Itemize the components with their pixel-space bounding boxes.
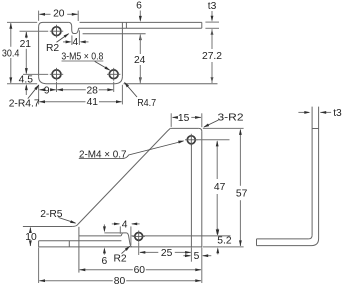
svg-text:5.2: 5.2: [217, 236, 232, 247]
svg-text:4: 4: [73, 37, 79, 48]
svg-text:60: 60: [134, 265, 146, 276]
svg-text:6: 6: [102, 256, 108, 267]
svg-text:t3: t3: [208, 1, 217, 12]
svg-text:20: 20: [53, 9, 65, 20]
svg-text:25: 25: [161, 248, 173, 259]
svg-text:4: 4: [122, 219, 128, 230]
svg-text:t3: t3: [333, 108, 342, 119]
svg-text:57: 57: [236, 189, 248, 200]
svg-text:10: 10: [25, 232, 37, 243]
svg-text:15: 15: [178, 113, 190, 124]
svg-text:R2: R2: [46, 43, 59, 54]
svg-text:R4.7: R4.7: [137, 98, 156, 109]
svg-text:24: 24: [134, 55, 146, 66]
svg-text:3-R2: 3-R2: [218, 112, 244, 123]
svg-text:4.5: 4.5: [19, 75, 34, 86]
svg-text:9: 9: [44, 85, 50, 96]
svg-text:80: 80: [114, 276, 126, 286]
svg-text:41: 41: [87, 97, 99, 108]
svg-text:21: 21: [20, 39, 32, 50]
svg-text:R2: R2: [114, 254, 127, 265]
svg-text:6: 6: [136, 1, 142, 12]
svg-text:5: 5: [194, 251, 200, 262]
svg-text:47: 47: [214, 182, 226, 193]
svg-text:30.4: 30.4: [2, 49, 20, 60]
svg-text:28: 28: [86, 85, 98, 96]
svg-text:27.2: 27.2: [202, 51, 222, 62]
svg-text:2-R4.7: 2-R4.7: [9, 98, 40, 109]
